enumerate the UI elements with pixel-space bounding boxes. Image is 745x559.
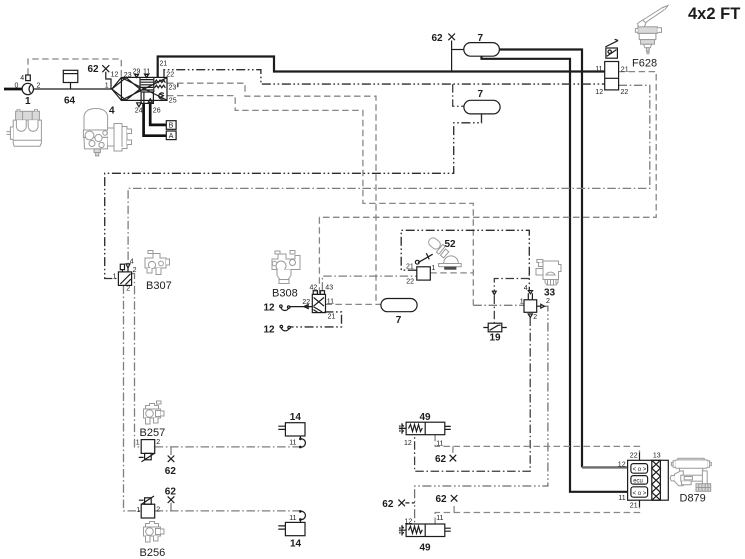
label 19	[490, 333, 502, 344]
arrow marker into 19 riser	[492, 291, 496, 294]
title 4x2 FT	[688, 5, 740, 23]
label 7 (tank lower)	[396, 315, 402, 326]
label 22 (52)	[406, 279, 414, 286]
test point 62 X (49 lower line)	[451, 495, 458, 502]
wire: chamber 49 lower port 11 to D879 port 21	[435, 507, 639, 524]
svg-text:21: 21	[630, 503, 638, 510]
label 22 (F628)	[621, 89, 629, 96]
svg-text:4: 4	[20, 75, 24, 82]
svg-text:22: 22	[630, 453, 638, 460]
label 21 (B308)	[328, 313, 336, 320]
label 62 (49 upper)	[435, 454, 447, 465]
svg-text:62: 62	[88, 64, 100, 75]
label 11 (49 upper)	[436, 440, 443, 447]
label 52	[445, 239, 457, 250]
label 21 (dryer)	[160, 60, 168, 67]
label 21 (52)	[406, 263, 414, 270]
test point 62 X (left of 49 lower)	[398, 500, 405, 507]
label 12 (49 lower)	[405, 518, 413, 525]
svg-text:11: 11	[436, 515, 443, 522]
svg-text:21: 21	[160, 60, 168, 67]
svg-text:< o >: < o >	[633, 467, 647, 473]
svg-text:26: 26	[153, 108, 161, 115]
wire: dryer port 22 to F628 port 12 (dash-dot-dot)	[164, 70, 605, 84]
wire: dryer port 25 supply to valves 52/33	[167, 96, 473, 306]
tank 7 top	[464, 43, 500, 57]
svg-text:13: 13	[653, 453, 661, 460]
label 2 (33 right)	[546, 298, 550, 305]
label 12 (D879)	[618, 462, 626, 469]
svg-text:62: 62	[382, 499, 394, 510]
label 2 (compressor port)	[37, 83, 41, 90]
label 7 (tank top)	[478, 33, 484, 44]
EBS modulator D879 symbol	[628, 460, 669, 500]
label 33	[544, 287, 556, 298]
label 23 (dryer right)	[169, 84, 177, 91]
svg-text:1: 1	[136, 439, 140, 446]
svg-text:2: 2	[546, 298, 550, 305]
label 2 (B307 bottom)	[126, 286, 130, 293]
wire: B308 port 43 to 52 port 22	[322, 276, 416, 291]
label 64	[64, 96, 76, 107]
label B308	[272, 287, 298, 299]
label D879	[680, 492, 706, 504]
svg-text:D879: D879	[680, 492, 706, 504]
svg-text:< o >: < o >	[633, 491, 647, 497]
wire: hook into 14 upper port 11	[299, 436, 305, 448]
label 49 (upper)	[420, 412, 432, 423]
wire: dryer port 24 to coupling A	[144, 103, 167, 136]
svg-text:7: 7	[478, 33, 484, 44]
svg-text:11: 11	[289, 515, 296, 522]
svg-text:52: 52	[445, 239, 457, 250]
svg-text:19: 19	[490, 333, 502, 344]
wire: B307 port 2 right to B257 port 1	[132, 274, 142, 447]
svg-text:4x2 FT: 4x2 FT	[688, 5, 740, 23]
air dryer cartridge icon	[83, 109, 131, 156]
svg-text:11: 11	[327, 299, 334, 306]
label 62 (top middle)	[432, 33, 444, 44]
F628 hand valve icon	[635, 6, 668, 54]
svg-text:B256: B256	[140, 547, 166, 559]
svg-text:12: 12	[595, 89, 603, 96]
brake chamber 14 upper	[278, 423, 305, 436]
svg-text:11: 11	[289, 439, 296, 446]
wire: dryer port 21 to F628 port 11 (supply)	[158, 57, 605, 78]
wire: relay 33 port 2 bottom to chamber 49 upper port 12	[415, 318, 531, 472]
svg-text:11: 11	[618, 495, 625, 502]
label 12 (coupling lower)	[264, 324, 276, 335]
svg-text:43: 43	[325, 285, 333, 292]
svg-text:1: 1	[105, 83, 109, 90]
label 21 (D879)	[630, 503, 638, 510]
test point 62 (X) on line 1	[102, 65, 109, 72]
relay emergency valve B257 symbol	[139, 440, 155, 462]
svg-text:64: 64	[64, 96, 76, 107]
label 13 (D879)	[653, 453, 661, 460]
svg-text:12: 12	[111, 71, 119, 78]
hand brake valve 52 symbol	[415, 253, 432, 280]
wire: tank 7 top bottom port to D879 port 11	[482, 56, 628, 492]
coupling B box	[166, 121, 176, 130]
wire: compressor inlet thick stub	[4, 88, 22, 91]
B257 valve icon	[144, 401, 165, 424]
svg-text:2: 2	[133, 267, 137, 274]
svg-text:B308: B308	[272, 287, 298, 299]
label 62 (B257)	[165, 466, 177, 477]
svg-text:23: 23	[124, 72, 132, 79]
svg-text:49: 49	[420, 542, 432, 553]
wire: dryer port 23 to tank 7 lower	[167, 83, 376, 303]
svg-text:33: 33	[544, 287, 556, 298]
svg-text:22: 22	[406, 279, 414, 286]
label 14 (lower)	[290, 538, 302, 549]
svg-text:12: 12	[404, 440, 412, 447]
wire: compressor port 4 to dryer port 23 (dashed)	[28, 59, 121, 77]
wire: test point 62 stem above B256 line	[170, 503, 172, 511]
svg-text:1: 1	[520, 298, 524, 305]
test X (B257 line)	[168, 456, 175, 463]
wire: B308 port 22 to test coupling 12	[290, 306, 312, 308]
label 12 (coupling upper)	[264, 303, 276, 314]
wire: 52 port 21 to relay 33 port 4 (control)	[401, 230, 529, 290]
label 11 (D879)	[618, 495, 625, 502]
label 11 (F628)	[595, 66, 602, 73]
label 22 (D879)	[630, 453, 638, 460]
svg-text:11: 11	[436, 440, 443, 447]
svg-text:2: 2	[126, 286, 130, 293]
wire: test point 62 stem on 49 lower line	[453, 502, 455, 512]
label 11 (14 upper)	[289, 439, 296, 446]
engine icon	[6, 110, 41, 147]
label 1 (52)	[431, 265, 435, 272]
wire: tank 7 mid-upper bottom to B307 port 1	[105, 114, 482, 279]
label 23 (dryer top)	[124, 72, 132, 79]
label 26 (dryer bottom)	[153, 108, 161, 115]
label 1 (compressor)	[25, 96, 31, 107]
svg-text:25: 25	[169, 98, 177, 105]
svg-text:4: 4	[524, 285, 528, 292]
compressor 1	[22, 75, 33, 95]
wire: junction to tank 7 middle-upper left port	[453, 84, 464, 106]
svg-text:12: 12	[264, 324, 276, 335]
svg-text:4: 4	[109, 106, 115, 117]
svg-text:62: 62	[435, 454, 447, 465]
label 4 (B307)	[130, 258, 134, 265]
relay valve 33 symbol	[524, 291, 544, 318]
wire: gauge 64 stub	[70, 83, 72, 90]
label 4 (air dryer)	[109, 106, 115, 117]
test point 62 X (49 upper line)	[450, 455, 457, 462]
svg-text:A: A	[169, 133, 174, 140]
label F628	[632, 57, 657, 69]
brake chamber 14 lower	[278, 522, 305, 535]
svg-text:B257: B257	[140, 427, 166, 439]
wire: B257 port 2 to brake chamber 14 upper	[155, 446, 299, 448]
label 4 (33)	[524, 285, 528, 292]
B256 valve icon	[144, 522, 165, 543]
label 2 (33 bottom)	[533, 314, 537, 321]
svg-text:2: 2	[156, 439, 160, 446]
wire: tank 7 top left port	[452, 49, 464, 51]
svg-text:1: 1	[25, 96, 31, 107]
wire: test point 62 stem below B257 line	[170, 447, 172, 455]
foot brake valve F628 symbol	[605, 39, 619, 90]
wire: B256 port 2 to brake chamber 14 lower	[155, 510, 299, 512]
wire: test point 62 to line 1 (port 12)	[106, 72, 111, 89]
svg-text:62: 62	[436, 494, 448, 505]
svg-text:62: 62	[165, 486, 177, 497]
tank 7 lower	[381, 299, 417, 312]
coupling A box	[166, 131, 176, 140]
pressure switch 19	[488, 323, 502, 332]
label 1 (33)	[520, 298, 524, 305]
svg-text:62: 62	[165, 466, 177, 477]
label 22 (dryer)	[166, 72, 174, 79]
dryer exhaust triangle	[137, 103, 142, 107]
label 7 (tank mid)	[478, 89, 484, 100]
svg-text:F628: F628	[632, 57, 657, 69]
svg-text:2: 2	[533, 314, 537, 321]
svg-text:ecu: ecu	[633, 479, 643, 485]
label 2 (B307 right)	[133, 267, 137, 274]
wire: test point 62 stem at tank 7	[451, 41, 453, 72]
B307 valve icon	[145, 251, 170, 275]
svg-text:12: 12	[618, 462, 626, 469]
label 1 (B257)	[136, 439, 140, 446]
label 0 (compressor port)	[15, 83, 19, 90]
wire: branch to pressure switch 19	[494, 279, 529, 324]
svg-text:11: 11	[595, 66, 602, 73]
wire: D879 port 22 stub	[639, 452, 641, 460]
parking valve B307 symbol	[118, 264, 131, 286]
label B307	[146, 280, 172, 292]
svg-text:22: 22	[621, 89, 629, 96]
label 1 (B307)	[113, 273, 117, 280]
svg-text:7: 7	[478, 89, 484, 100]
svg-text:22: 22	[302, 299, 310, 306]
label 21 (F628)	[621, 66, 629, 73]
D879 icon	[670, 458, 711, 491]
svg-text:B: B	[169, 123, 174, 130]
label 12 (F628)	[595, 89, 603, 96]
svg-text:4: 4	[130, 258, 134, 265]
wire: F628 port 21 to B308 port 42	[319, 72, 656, 295]
svg-text:14: 14	[290, 412, 302, 423]
svg-text:1: 1	[113, 273, 117, 280]
label 14 (upper)	[290, 412, 302, 423]
svg-text:62: 62	[432, 33, 444, 44]
wire: hook into 14 lower port 11	[299, 510, 305, 522]
test point 62 top (X)	[448, 34, 455, 41]
spring brake valve B256 symbol	[139, 496, 155, 518]
svg-text:23: 23	[169, 84, 177, 91]
test X (B256 line)	[168, 496, 175, 503]
air dryer 4 symbol	[112, 77, 167, 103]
wire: F628 port 22 to B307 port 4	[128, 85, 650, 263]
wire: relay 33 port 2 right to chamber 49 lower port 12	[415, 306, 548, 524]
label 11 (49 lower)	[436, 515, 443, 522]
label B257	[140, 427, 166, 439]
label 43 (B308)	[325, 285, 333, 292]
wire: supply to relay 33 port 1	[473, 304, 524, 306]
label 22 (B308)	[302, 299, 310, 306]
svg-text:42: 42	[310, 285, 318, 292]
label 42 (B308)	[310, 285, 318, 292]
svg-text:1: 1	[136, 507, 140, 514]
label 4 (compressor port)	[20, 75, 24, 82]
wire: hand valve 52 port 1 tap	[430, 272, 473, 274]
svg-text:1: 1	[431, 265, 435, 272]
wire: compressor 2 to air dryer port 1	[33, 88, 112, 90]
label 12 (dryer port)	[111, 71, 119, 78]
B308 valve icon	[272, 251, 300, 284]
label 24 (dryer bottom)	[135, 108, 143, 115]
label 11 (14 lower)	[289, 515, 296, 522]
svg-text:29: 29	[133, 69, 141, 76]
label 62 (left of 49 lower)	[382, 499, 394, 510]
svg-text:22: 22	[166, 72, 174, 79]
svg-text:7: 7	[396, 315, 402, 326]
svg-text:49: 49	[420, 412, 432, 423]
svg-text:21: 21	[406, 263, 414, 270]
label 25 (dryer right)	[169, 98, 177, 105]
wire: D879 port 21 stub	[639, 500, 641, 507]
wire: chamber 49 upper port 11 to D879 port 22	[435, 435, 639, 453]
wire: pressure switch 19 side stubs	[483, 327, 507, 329]
label 49 (lower)	[420, 542, 432, 553]
spring brake chamber 49 upper	[399, 422, 451, 435]
label 2 (B257)	[156, 439, 160, 446]
wire: test point 62 stem left of 49 lower	[405, 502, 414, 504]
dryer top vent markers 29 / 11	[135, 75, 149, 78]
label 29 (dryer top)	[133, 69, 141, 76]
svg-text:24: 24	[135, 108, 143, 115]
label 11 (dryer top)	[143, 69, 150, 76]
wire: dryer port 26 to coupling B	[150, 103, 166, 125]
33 relay icon	[536, 260, 561, 286]
svg-text:11: 11	[143, 69, 150, 76]
tank 7 middle-upper	[464, 100, 500, 114]
svg-text:12: 12	[405, 518, 413, 525]
svg-text:21: 21	[328, 313, 336, 320]
label B256	[140, 547, 166, 559]
52 handle icon	[427, 236, 461, 270]
wire: test point 62 stem on 49 upper line	[452, 446, 454, 454]
wire: tank 7 top right to D879 port 12	[499, 50, 627, 468]
svg-text:21: 21	[621, 66, 629, 73]
label 1 (dryer port)	[105, 83, 109, 90]
test coupling 12 upper	[280, 305, 309, 311]
label 62 (top left)	[88, 64, 100, 75]
wire: B308 port 11 to tank 7 lower	[325, 303, 381, 305]
label 11 (B308)	[327, 299, 334, 306]
wire: B308 port 21 to test coupling 12 lower	[290, 312, 341, 327]
svg-text:14: 14	[290, 538, 302, 549]
svg-text:2: 2	[156, 506, 160, 513]
svg-text:2: 2	[37, 83, 41, 90]
label 2 (B256)	[156, 506, 160, 513]
label 62 (49 lower)	[436, 494, 448, 505]
label 12 (49 upper)	[404, 440, 412, 447]
svg-text:B307: B307	[146, 280, 172, 292]
wire: B307 port 2 bottom to B256 port 1	[124, 285, 142, 511]
gauge 64	[63, 70, 78, 82]
label 1 (B256)	[136, 507, 140, 514]
test coupling 12 lower	[280, 325, 290, 331]
spring brake chamber 49 lower	[399, 524, 451, 537]
svg-text:12: 12	[264, 303, 276, 314]
park valve B308 symbol	[312, 291, 325, 313]
svg-text:0: 0	[15, 83, 19, 90]
label 62 (B256)	[165, 486, 177, 497]
